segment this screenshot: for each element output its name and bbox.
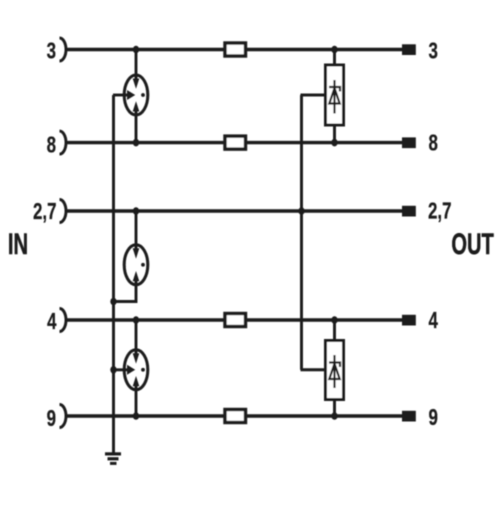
pin label 9 right bbox=[429, 404, 438, 430]
ground bus wire (vertical, x=113) bbox=[112, 95, 115, 454]
svg-text:9: 9 bbox=[429, 404, 438, 430]
terminal IN 3 (socket arc) bbox=[60, 38, 67, 61]
node ground-bus/F3 bbox=[110, 366, 116, 374]
pin label 9 left bbox=[47, 405, 56, 431]
resistor line 4 bbox=[225, 314, 246, 327]
wire line 3 bbox=[66, 48, 403, 51]
terminal OUT 8 (square) bbox=[402, 137, 416, 148]
terminal OUT 3 (square) bbox=[402, 44, 416, 55]
terminal OUT 9 (square) bbox=[402, 411, 416, 422]
pin label 3 right bbox=[429, 38, 438, 64]
ground symbol bbox=[105, 452, 121, 465]
wire tap to suppressor V1 bbox=[301, 94, 326, 97]
svg-text:9: 9 bbox=[47, 405, 56, 431]
node line9/V2 bbox=[331, 412, 337, 420]
svg-text:4: 4 bbox=[47, 308, 57, 334]
pin label 2,7 left bbox=[33, 199, 57, 225]
terminal IN 9 (socket arc) bbox=[60, 405, 67, 428]
terminal OUT 4 (square) bbox=[402, 315, 416, 326]
terminal IN 4 (socket arc) bbox=[60, 309, 67, 332]
wire line 2,7 bbox=[66, 209, 403, 212]
V2 diode symbol bbox=[329, 355, 340, 388]
terminal IN 8 (socket arc) bbox=[60, 131, 67, 154]
node line8/F1 bbox=[133, 139, 139, 147]
resistor line 9 bbox=[225, 410, 246, 423]
pin label 8 right bbox=[429, 130, 438, 156]
label IN bbox=[8, 228, 28, 261]
suppressor diode V1 (between lines 3 and 8) bbox=[326, 50, 344, 143]
terminal OUT 2,7 (square) bbox=[402, 206, 416, 217]
node line3/V1 bbox=[331, 46, 337, 54]
resistor line 8 bbox=[225, 136, 246, 149]
svg-text:OUT: OUT bbox=[451, 228, 494, 261]
pin label 3 left bbox=[47, 38, 56, 64]
V1 diode symbol bbox=[329, 80, 340, 114]
node line4/F3 bbox=[133, 316, 139, 324]
node line2,7/tap bbox=[298, 207, 304, 215]
wire F2 bottom to ground bus bbox=[113, 280, 136, 302]
node line9/F3 bbox=[133, 412, 139, 420]
pin label 4 left bbox=[47, 308, 57, 334]
svg-text:IN: IN bbox=[8, 228, 28, 261]
wire line 9 bbox=[66, 414, 403, 417]
terminal IN 2,7 (socket arc) bbox=[60, 200, 67, 223]
suppressor diode V2 (between lines 4 and 9) bbox=[326, 320, 344, 416]
svg-text:3: 3 bbox=[47, 38, 56, 64]
node line3/F1 bbox=[133, 46, 139, 54]
label OUT bbox=[451, 228, 494, 261]
gas discharge tube F3 (between lines 4 and 9) bbox=[113, 320, 148, 416]
resistor line 3 bbox=[225, 43, 246, 56]
node line4/V2 bbox=[331, 316, 337, 324]
wire tap to suppressor V2 bbox=[301, 368, 326, 371]
wire 2,7 tap (vertical, x=301.5) bbox=[300, 95, 303, 370]
svg-text:3: 3 bbox=[429, 38, 438, 64]
svg-text:2,7: 2,7 bbox=[428, 198, 452, 224]
gas discharge tube F2 (below line 2,7) bbox=[113, 211, 148, 302]
gas discharge tube F1 (between lines 3 and 8) bbox=[113, 50, 148, 143]
F1 third electrode (arrow from ground bus) bbox=[113, 94, 128, 97]
node line2,7/F2 bbox=[133, 207, 139, 215]
node line8/V1 bbox=[331, 139, 337, 147]
pin label 2,7 right bbox=[428, 198, 452, 224]
svg-text:8: 8 bbox=[429, 130, 438, 156]
svg-text:8: 8 bbox=[47, 132, 56, 158]
F3 third electrode (arrow from ground bus) bbox=[113, 368, 128, 371]
pin label 8 left bbox=[47, 132, 56, 158]
node ground-bus/F2 bbox=[110, 298, 116, 306]
wire line 8 bbox=[66, 141, 403, 144]
svg-text:4: 4 bbox=[429, 307, 439, 333]
wire line 4 bbox=[66, 318, 403, 321]
svg-text:2,7: 2,7 bbox=[33, 199, 57, 225]
pin label 4 right bbox=[429, 307, 439, 333]
